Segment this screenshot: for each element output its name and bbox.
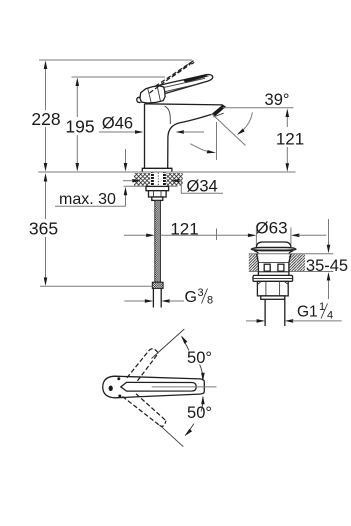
deck crosshatch left patch (134, 173, 150, 186)
svg-text:121: 121 (276, 130, 304, 149)
dim G3/8 right line (169, 300, 184, 302)
dim max30 underline (55, 205, 126, 207)
drain flange washer (253, 275, 293, 281)
deck crosshatch right patch (167, 173, 183, 186)
dim G1 1/4 left arrowhead (257, 319, 266, 323)
svg-text:3: 3 (198, 287, 204, 299)
dashed raised handle tip cap (190, 60, 194, 64)
spout outlet extension line (216, 122, 218, 240)
threaded shank right band (163, 173, 166, 186)
faucet body left edge (144, 104, 146, 169)
dim 121 right vertical line (286, 112, 288, 164)
svg-text:Ø63: Ø63 (255, 219, 287, 238)
hose end nut (152, 282, 163, 288)
handle knuckle (140, 86, 165, 103)
svg-text:Ø34: Ø34 (187, 178, 218, 196)
svg-text:Ø46: Ø46 (102, 115, 133, 133)
countertop deck bottom line (124, 185, 178, 187)
drain cap brim (251, 247, 296, 250)
drain lock nut (257, 281, 288, 296)
dim 228 arrow up (44, 61, 48, 70)
dim 121 mid left arrowhead (146, 234, 155, 238)
mounting nut facets (154, 191, 162, 197)
dim G1 1/4 right line (292, 320, 342, 322)
upper arc segment near handle (200, 365, 203, 381)
svg-text:39°: 39° (265, 91, 290, 109)
svg-text:121: 121 (170, 220, 198, 239)
svg-text:max. 30: max. 30 (59, 191, 116, 208)
dim 365 arrow up (44, 173, 48, 182)
drain cap neck (254, 251, 293, 254)
lower arc arrow up at handle (201, 396, 205, 405)
spout inner fillet line (165, 106, 171, 124)
threaded shank left band (151, 173, 154, 186)
faucet spout underside and body right edge (168, 114, 212, 168)
drain flange midline (253, 278, 293, 280)
dim 365 bottom tick line (40, 285, 152, 287)
svg-text:4: 4 (327, 310, 333, 322)
dashed handle rotated up line 2 (138, 353, 159, 381)
dim 228 arrow down (44, 163, 48, 172)
dim 35-45 arrow up (327, 272, 331, 281)
handle lever inner line 2 (161, 84, 197, 92)
dashed raised handle inner line (172, 65, 190, 78)
dashed handle rotated up cap (149, 349, 159, 353)
knuckle facet line 2 (157, 87, 160, 101)
TOP_VIEW (103, 329, 217, 447)
drain cap brim midline (252, 248, 295, 250)
faucet spout nose aerator (211, 105, 226, 117)
lower arc arrowhead at ray (185, 429, 192, 436)
drain deck hatch left (249, 254, 258, 271)
drain body window left (264, 264, 270, 271)
dim Ø46 right arrowhead (176, 130, 185, 134)
drain body window band (258, 262, 289, 272)
dim 121 mid left line (124, 234, 148, 236)
handle knob dot bottom (118, 395, 121, 398)
curved leader arrowhead (207, 150, 216, 153)
spout angled ray (212, 114, 246, 146)
svg-text:228: 228 (31, 109, 60, 129)
handle lever tip shading (183, 75, 210, 83)
lower 50 ray (161, 426, 183, 446)
DRAIN_VIEW (217, 219, 349, 327)
handle centerline (152, 386, 217, 388)
DIMENSIONS_LEFT (29, 60, 304, 307)
dim Ø63 right line (298, 234, 326, 236)
svg-text:35-45: 35-45 (306, 257, 348, 275)
dim Ø46 left arrowhead (135, 130, 144, 134)
dashed handle rotated down line 1 (123, 397, 160, 426)
drain body window right (278, 264, 284, 271)
dashed handle rotated up line 1 (127, 351, 149, 378)
dim Ø63 extension lines (256, 228, 291, 247)
knuckle bump left (137, 97, 141, 102)
handle lever solid (151, 74, 212, 95)
drain deck top line (249, 253, 333, 255)
upper arc arrow down at handle (201, 373, 205, 382)
dashed raised handle lower line (150, 63, 191, 93)
svg-text:50°: 50° (187, 404, 212, 422)
dim 195 arrow down (76, 163, 80, 172)
39deg arc (238, 112, 252, 133)
handle lever inner line 1 (158, 78, 205, 88)
drain deck bottom line (249, 271, 333, 273)
dim Ø34 leader (179, 181, 224, 194)
dim 121 right arrow up (286, 109, 290, 118)
svg-text:50°: 50° (187, 349, 212, 367)
dim max30 arrow down (124, 163, 128, 172)
aerator detail line (213, 113, 223, 117)
faucet spout top edge (145, 104, 223, 105)
svg-text:G1: G1 (297, 304, 318, 321)
dim G1 1/4 left line (246, 320, 258, 322)
drain nut facets (266, 281, 280, 296)
dim Ø34 left arrow line (123, 180, 135, 182)
G3/8 tube (153, 288, 161, 307)
drain nut chamfers (257, 282, 288, 285)
lower arc segment near handle (201, 397, 203, 412)
dim G3/8 left line (124, 300, 146, 302)
dim 228 vertical line (45, 63, 47, 169)
dim Ø63 tick (216, 229, 218, 241)
dim 121 mid right line (161, 234, 250, 236)
dim Ø46 left arrow line (99, 131, 136, 133)
dim 35-45 vertical line (328, 219, 330, 299)
dim Ø46 right arrow line (183, 131, 204, 133)
dim 121 right arrow down (286, 163, 290, 172)
countertop deck top line (38, 171, 295, 173)
braided supply hose (155, 200, 161, 282)
handle top view inner face (121, 382, 196, 391)
hose collar (152, 197, 163, 200)
dashed handle rotated down line 2 (136, 394, 166, 421)
dashed raised handle upper line (155, 60, 194, 86)
faucet base plinth (142, 168, 172, 172)
drain tailpiece tube (265, 299, 285, 326)
drain deck hatch right (289, 254, 305, 271)
dim G1 1/4 right arrowhead (285, 319, 294, 323)
svg-text:G: G (185, 289, 197, 306)
dim 195 vertical line (76, 80, 78, 169)
mounting washer plate (146, 186, 169, 190)
svg-text:8: 8 (207, 295, 213, 307)
handle knob oval hole (109, 386, 113, 392)
drain step ring (261, 296, 285, 299)
dim Ø34 left arrowhead (132, 179, 141, 183)
spout horizontal ray (223, 107, 294, 109)
knuckle facet line 1 (148, 88, 151, 102)
upper 50 ray (152, 329, 185, 359)
dim Ø34 right arrowhead (171, 179, 180, 183)
mounting nut (149, 191, 167, 197)
curved leader to outlet line (190, 144, 208, 152)
dim G3/8 left arrowhead (145, 299, 154, 303)
dim Ø63 right arrowhead (291, 234, 300, 238)
dim 35-45 arrow down (327, 245, 331, 254)
MAIN_FRONT_VIEW (38, 60, 295, 307)
upper arc arrowhead at ray (181, 336, 187, 344)
39deg arc arrowhead (237, 129, 245, 135)
shank centerline dotted (157, 173, 159, 187)
dim max30 arrow up (124, 187, 128, 196)
dim Ø63 left arrowhead (248, 234, 257, 238)
drain body through deck (257, 254, 291, 276)
dashed handle rotated down cap (160, 421, 167, 427)
drain cap dome (256, 242, 291, 247)
upper arc segment near ray (182, 337, 189, 351)
dim G3/8 right arrowhead (161, 299, 170, 303)
dim 195 top extension line (72, 76, 166, 78)
dim 228 top extension line (39, 59, 192, 61)
svg-text:365: 365 (29, 219, 58, 239)
handle top view outline (103, 376, 205, 398)
lower arc segment near ray (185, 424, 194, 436)
dim max30 leader vertical (125, 149, 127, 206)
handle knob dot top (117, 377, 120, 380)
dim 365 arrow down (44, 278, 48, 287)
dim 365 vertical line (45, 176, 47, 283)
svg-text:195: 195 (65, 117, 94, 137)
dim 195 arrow up (76, 78, 80, 87)
